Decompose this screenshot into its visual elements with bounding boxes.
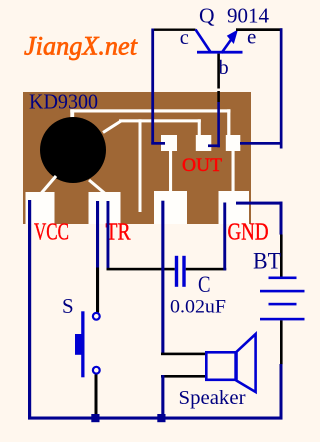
wire base lead black upper [217,54,220,89]
pad VCC [26,192,55,224]
pad S3 [226,135,241,151]
transistor Q1 base bar [197,51,243,54]
wire VCC down left side [28,200,31,420]
pad S2 [196,135,212,151]
svg-text:b: b [219,57,229,79]
chip blob (COB) [40,117,106,183]
wire top-left horizontal (collector to left rail) [152,29,196,31]
svg-text:C: C [198,272,211,297]
trace pad S3 to GND pad [232,150,235,193]
pad S1 [161,135,177,151]
wire base lead navy into pad S2 [217,102,220,147]
wire battery bottom lead navy to rail [280,364,283,420]
junction speaker/bottom rail [157,414,165,422]
battery BT plate 4 (long) [260,318,305,321]
capacitor C plate right [182,256,185,287]
transistor Q1 emitter stroke with arrow [222,39,232,53]
switch S top contact [93,313,100,320]
svg-text:e: e [247,25,256,49]
speaker cone [237,334,256,392]
trace down to pad S2 [198,119,201,136]
wire OUT pad to right rail [240,142,283,145]
speaker driver box [206,352,235,380]
capacitor C left lead [107,268,175,271]
pad TR [89,192,121,224]
wire GND pad down to capacitor [223,203,226,271]
wire battery top lead navy [280,202,283,235]
svg-text:Speaker: Speaker [179,388,247,409]
junction switch/bottom rail [91,414,99,422]
battery BT plate 1 (short) [269,277,297,280]
trace dead-end vertical [139,119,142,212]
speaker wire lower [161,375,205,378]
speaker wire upper [161,353,205,356]
switch S actuator bar [81,311,84,377]
wire corner into pad S1 [151,142,165,145]
trace blob to TR pad [89,180,108,196]
wire base lead black lower [217,91,220,102]
wire battery top lead black [280,235,283,278]
wire battery bottom lead black [280,320,283,364]
wire left vertical rail into IC [151,29,154,145]
wire GND pad right to battery rail [236,202,283,205]
trace stub to blob top [70,109,74,119]
trace lower horizontal [119,119,201,122]
svg-text:GND: GND [228,219,269,246]
wire TR to capacitor [107,201,110,268]
capacitor C plate left [175,256,178,287]
wire speaker to bottom rail [161,375,164,419]
IC KD9300 body [23,92,251,224]
trace pad S1 to speaker pad [169,150,172,193]
transistor Q1 collector stroke [196,30,211,53]
capacitor C right lead [186,268,227,271]
trace upper horizontal [70,109,230,112]
switch S actuator knob [75,334,85,355]
battery BT plate 2 (long) [260,290,305,293]
svg-text:OUT: OUT [182,155,222,176]
svg-text:c: c [180,27,189,49]
trace down to pad S3 [227,109,230,136]
svg-text:VCC: VCC [34,219,69,246]
switch S bottom contact [93,367,100,374]
wire switch to bottom rail [95,375,98,419]
trace diagonal from blob [103,121,121,133]
svg-text:0.02uF: 0.02uF [170,297,226,318]
wire speaker-out pad down [161,201,164,355]
svg-text:S: S [62,294,74,318]
wire TR to switch (upper) [96,201,99,268]
pad GND [219,191,250,224]
pad speaker-out [154,191,187,224]
battery BT plate 3 (short) [269,303,297,306]
wire right vertical (emitter to OUT wire) [280,28,283,148]
svg-text:BT: BT [253,249,281,274]
trace blob to VCC pad [38,176,56,197]
svg-text:JiangX.net: JiangX.net [24,32,138,61]
wire bottom rail [28,417,283,420]
wire top-right horizontal (emitter to right corner) [236,28,283,31]
wire base lead gap [217,89,221,91]
svg-text:Q: Q [199,3,215,27]
